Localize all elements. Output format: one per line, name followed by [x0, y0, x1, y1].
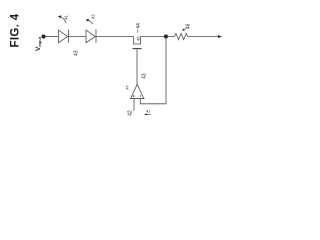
output arrowhead	[218, 35, 222, 38]
wire switch to junction	[141, 36, 167, 38]
op-amp + input mark	[133, 95, 135, 97]
output wire	[188, 36, 219, 38]
gate plate	[133, 48, 142, 50]
diode D1	[58, 30, 67, 43]
ref 45 inside switch	[135, 36, 140, 41]
switch M1 channel (U shape)	[134, 37, 141, 45]
op-amp - input mark (rotated dash)	[139, 95, 141, 97]
ref 43 label right of gate wire	[141, 73, 147, 79]
wire input to diode D1	[45, 36, 58, 38]
ref 44 above switch with leader	[136, 23, 142, 33]
svg-text:47: 47	[125, 84, 130, 89]
diode D2	[86, 30, 95, 43]
wire between diodes	[68, 36, 86, 38]
feedback wire from junction to op-amp inverting input	[140, 37, 166, 104]
op-amp U2 triangle	[131, 84, 144, 98]
input node dot	[41, 34, 45, 38]
svg-text:Vinput: Vinput	[35, 36, 42, 51]
ref 42 label bottom left	[127, 110, 133, 116]
svg-text:45: 45	[135, 36, 140, 41]
svg-text:43: 43	[141, 73, 147, 79]
svg-text:FIG. 4: FIG. 4	[10, 13, 22, 47]
ref 47 label left of op-amp	[125, 84, 130, 89]
net label Vinput	[35, 36, 42, 51]
svg-text:46: 46	[186, 23, 192, 29]
figure label FIG. 4	[10, 13, 22, 47]
gate wire to op-amp output	[136, 49, 138, 84]
wire diode D2 to switch	[96, 36, 134, 38]
junction node dot	[164, 34, 168, 38]
svg-text:41: 41	[146, 109, 150, 113]
ref 41 bottom right with leader arrow	[144, 109, 151, 115]
op-amp non-inverting input wire (reference, open end)	[133, 99, 135, 111]
ref 42 leader and number (diode D2)	[86, 14, 96, 25]
svg-text:43: 43	[73, 50, 79, 56]
svg-text:42: 42	[127, 110, 133, 116]
svg-text:44: 44	[136, 23, 142, 29]
ref 46 resistor leader and number	[182, 23, 191, 31]
wire junction to resistor	[166, 36, 175, 38]
svg-text:41: 41	[63, 14, 68, 19]
resistor R1	[175, 33, 188, 39]
svg-text:42: 42	[91, 14, 96, 19]
ref 43 node label below diode D1	[73, 50, 79, 56]
ref 41 leader and number (diode D1)	[58, 14, 68, 22]
